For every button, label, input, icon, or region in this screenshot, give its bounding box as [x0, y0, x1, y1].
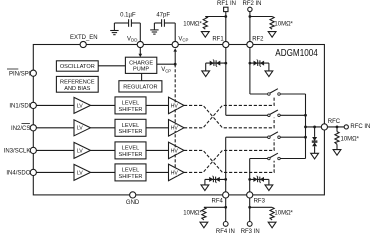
svg-text:REGULATOR: REGULATOR: [123, 84, 157, 90]
svg-text:SHIFTER: SHIFTER: [119, 107, 143, 113]
svg-text:LEVEL: LEVEL: [122, 123, 139, 129]
svg-text:LV: LV: [77, 148, 83, 154]
svg-text:SHIFTER: SHIFTER: [119, 129, 143, 135]
svg-text:LV: LV: [77, 170, 83, 176]
svg-text:RF2: RF2: [252, 36, 264, 42]
svg-text:LEVEL: LEVEL: [122, 168, 139, 174]
svg-text:AND BIAS: AND BIAS: [64, 86, 90, 92]
svg-text:HV: HV: [171, 126, 179, 132]
svg-text:10MΩ*: 10MΩ*: [274, 210, 293, 216]
svg-text:10MΩ*: 10MΩ*: [183, 210, 202, 216]
svg-text:RFC IN: RFC IN: [350, 124, 370, 130]
svg-text:RFC: RFC: [328, 119, 341, 125]
svg-text:GND: GND: [126, 200, 140, 206]
svg-text:SHIFTER: SHIFTER: [119, 152, 143, 158]
svg-text:RF2 IN: RF2 IN: [242, 1, 261, 7]
svg-text:HV: HV: [171, 103, 179, 109]
svg-text:RF1 IN: RF1 IN: [217, 1, 236, 7]
svg-text:IN4/SDO: IN4/SDO: [6, 171, 30, 177]
svg-text:IN2/CS: IN2/CS: [11, 126, 30, 132]
svg-text:IN1/SDI: IN1/SDI: [9, 104, 30, 110]
svg-text:LEVEL: LEVEL: [122, 146, 139, 152]
svg-text:CHARGE: CHARGE: [129, 60, 153, 66]
svg-text:HV: HV: [171, 170, 179, 176]
svg-text:VCP: VCP: [178, 36, 188, 42]
svg-text:PUMP: PUMP: [133, 67, 149, 73]
svg-text:LEVEL: LEVEL: [122, 101, 139, 107]
svg-text:47pF: 47pF: [156, 12, 170, 18]
svg-text:RF4: RF4: [212, 199, 224, 205]
svg-text:RF3: RF3: [254, 199, 266, 205]
svg-text:10MΩ*: 10MΩ*: [341, 137, 360, 143]
svg-text:VDD: VDD: [127, 36, 137, 42]
svg-text:OSCILLATOR: OSCILLATOR: [60, 64, 95, 70]
svg-text:HV: HV: [171, 148, 179, 154]
svg-text:SHIFTER: SHIFTER: [119, 174, 143, 180]
svg-text:10MΩ*: 10MΩ*: [274, 22, 293, 28]
svg-text:RF4 IN: RF4 IN: [216, 229, 235, 235]
svg-text:10MΩ*: 10MΩ*: [183, 22, 202, 28]
svg-text:0.1µF: 0.1µF: [120, 12, 136, 18]
svg-text:EXTD_EN: EXTD_EN: [70, 35, 98, 41]
svg-text:LV: LV: [77, 126, 83, 132]
svg-text:ADGM1004: ADGM1004: [275, 48, 318, 59]
svg-text:IN3/SCLK: IN3/SCLK: [4, 149, 31, 155]
svg-text:PIN/SPI: PIN/SPI: [9, 71, 31, 77]
svg-text:REFERENCE: REFERENCE: [60, 80, 95, 86]
svg-text:VCP: VCP: [161, 67, 171, 73]
svg-text:RF3 IN: RF3 IN: [241, 229, 260, 235]
svg-text:LV: LV: [77, 103, 83, 109]
svg-text:RF1: RF1: [212, 36, 224, 42]
